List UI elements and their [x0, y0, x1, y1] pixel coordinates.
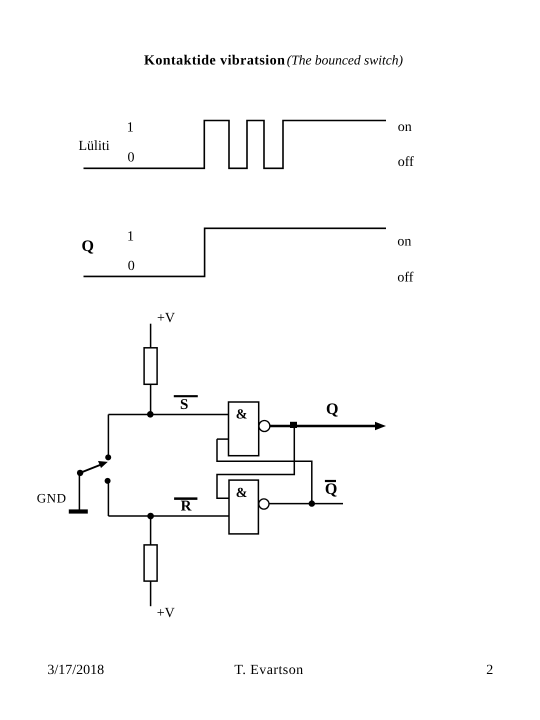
- svg-text:GND: GND: [37, 490, 67, 505]
- svg-text:+V: +V: [157, 311, 175, 326]
- wire pole to ground: [78, 474, 80, 510]
- wire Q output (thick, with arrowhead): [270, 425, 379, 427]
- svg-text:2: 2: [486, 663, 493, 678]
- label Q-bar overline: [325, 480, 336, 482]
- svg-text:on: on: [397, 235, 411, 250]
- svg-text:&: &: [236, 486, 248, 501]
- svg-text:on: on: [398, 120, 412, 135]
- NAND gate U1 body: [229, 402, 259, 456]
- wire resistor R2 to +V (bottom): [150, 581, 152, 606]
- Lüliti waveform trace: [84, 121, 387, 169]
- ground symbol: [69, 509, 88, 513]
- svg-text:Q: Q: [326, 401, 338, 418]
- wire feedback Q-bar to U1 input: [217, 439, 312, 504]
- svg-text:1: 1: [127, 230, 134, 245]
- svg-text:3/17/2018: 3/17/2018: [47, 663, 104, 678]
- svg-text:0: 0: [128, 151, 135, 166]
- svg-text:T. Evartson: T. Evartson: [234, 663, 303, 678]
- wire R node to resistor R2: [150, 516, 152, 545]
- svg-text:off: off: [397, 271, 413, 286]
- NAND gate U2 body: [229, 480, 258, 534]
- switch SW1 arm with arrowhead: [80, 464, 102, 473]
- node Q-bar junction dot: [309, 500, 315, 506]
- wire switch top contact to S line: [107, 415, 109, 456]
- node S junction dot: [147, 411, 154, 418]
- svg-text:Q: Q: [325, 481, 337, 498]
- node R junction dot: [147, 513, 154, 520]
- wire U1 second input from feedback: [217, 438, 229, 440]
- svg-text:+V: +V: [157, 606, 175, 621]
- svg-text:Lüliti: Lüliti: [79, 139, 110, 154]
- resistor R2 (pull-down side): [144, 545, 157, 581]
- svg-text:&: &: [236, 408, 248, 423]
- switch SW1 bottom contact: [105, 478, 111, 484]
- wire Q-bar output: [269, 503, 343, 505]
- wire +V to resistor R1: [150, 324, 152, 348]
- label S overline: [174, 395, 198, 397]
- svg-text:off: off: [398, 155, 414, 170]
- wire feedback Q to U2 input: [217, 427, 294, 498]
- switch SW1 top contact: [105, 454, 111, 460]
- wire S line (switch to gate U1 input): [108, 414, 228, 416]
- NAND gate U2 output bubble: [259, 499, 269, 509]
- svg-text:Kontaktide vibratsion (The bou: Kontaktide vibratsion (The bounced switc…: [144, 53, 403, 69]
- svg-text:R: R: [181, 498, 192, 514]
- Q waveform trace: [84, 228, 387, 276]
- svg-text:1: 1: [127, 120, 134, 135]
- switch SW1 pole: [77, 470, 83, 476]
- NAND gate U1 output bubble: [259, 421, 270, 432]
- svg-text:S: S: [180, 397, 188, 413]
- svg-text:Q: Q: [82, 238, 94, 255]
- resistor R1 (pull-up): [144, 348, 157, 385]
- wire R line (switch to gate U2 input): [108, 515, 229, 517]
- label R overline: [174, 497, 197, 500]
- svg-text:0: 0: [128, 259, 135, 274]
- wire switch bottom contact to R line: [107, 484, 109, 517]
- node Q junction dot: [290, 422, 297, 428]
- wire resistor R1 to S node: [150, 384, 152, 414]
